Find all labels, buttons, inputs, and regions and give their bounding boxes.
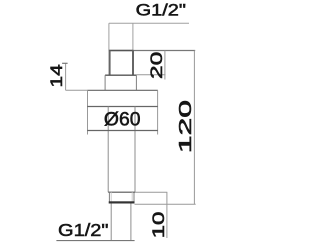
- dimension line 120: [193, 51, 195, 205]
- tube sides: [107, 107, 109, 193]
- dimension line 10: [166, 192, 168, 238]
- stub mid line / extension line to dims: [109, 50, 195, 52]
- collar sides: [104, 75, 106, 90]
- svg-text:10: 10: [149, 212, 168, 239]
- extension line flange top to 14 dim: [66, 89, 88, 91]
- svg-text:20: 20: [147, 52, 166, 80]
- tick at top of 14 dim: [62, 62, 68, 64]
- svg-text:14: 14: [47, 64, 66, 87]
- bottom thread stub: [110, 204, 112, 241]
- dimension line 20: [164, 51, 166, 80]
- dimension line diameter 60: [87, 130, 158, 132]
- leader underline / top edge line: [109, 22, 189, 24]
- flange top: [87, 89, 158, 91]
- bottom edge / leader underline for bottom G1/2: [56, 240, 134, 242]
- ring section sides: [108, 192, 110, 202]
- flange sides + diameter extension lines: [87, 90, 89, 134]
- svg-text:Ø60: Ø60: [104, 109, 141, 131]
- top thread stub: [108, 23, 110, 50]
- lower stub section: [109, 51, 111, 76]
- extension line to 120 dim bottom: [135, 203, 196, 205]
- dimension line 14: [65, 63, 67, 90]
- ring bottom thick line: [109, 201, 135, 203]
- collar top line + extension to 20 dim: [105, 74, 136, 76]
- svg-text:120: 120: [175, 100, 195, 154]
- svg-text:G1/2": G1/2": [58, 220, 109, 240]
- tube bottom line + extension to 10 dim: [108, 191, 135, 193]
- svg-text:G1/2": G1/2": [136, 1, 186, 20]
- flange bottom: [87, 106, 158, 108]
